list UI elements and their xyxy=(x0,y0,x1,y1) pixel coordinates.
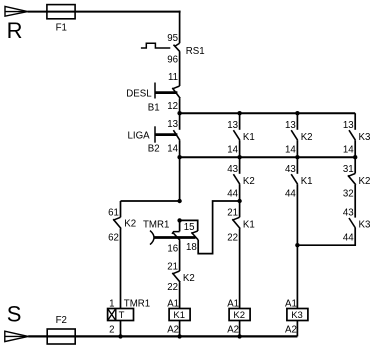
svg-text:TMR1: TMR1 xyxy=(143,220,169,231)
svg-text:16: 16 xyxy=(167,243,178,254)
label T in coil xyxy=(119,310,125,321)
svg-text:18: 18 xyxy=(186,242,197,253)
label LIGA xyxy=(128,131,151,142)
label RS1 xyxy=(186,46,205,57)
pushbutton DESL B1 NC contact 11-12 xyxy=(155,83,180,99)
label 21 (col1) xyxy=(167,262,178,273)
svg-text:K3: K3 xyxy=(291,310,303,321)
label TMR1 (coil) xyxy=(124,298,150,309)
svg-text:A2: A2 xyxy=(167,324,179,335)
svg-text:A1: A1 xyxy=(285,298,297,309)
wire rail1 to col4 xyxy=(354,112,356,114)
labels K2 13-14 xyxy=(285,120,313,156)
rail node wire (row 2) xyxy=(180,156,356,158)
label K3 in coil xyxy=(291,310,303,321)
svg-text:11: 11 xyxy=(168,72,178,83)
power feed arrow R xyxy=(5,6,28,16)
svg-text:LIGA: LIGA xyxy=(128,131,151,142)
svg-text:1: 1 xyxy=(109,298,114,309)
svg-text:32: 32 xyxy=(343,189,354,200)
labels K1 13-14 xyxy=(227,120,255,156)
svg-text:K2: K2 xyxy=(233,310,245,321)
wire rail2 to branch node xyxy=(179,157,181,201)
label DESL xyxy=(126,89,152,100)
svg-text:44: 44 xyxy=(285,189,296,200)
svg-text:13: 13 xyxy=(285,120,296,131)
svg-text:31: 31 xyxy=(343,164,354,175)
svg-text:13: 13 xyxy=(227,120,238,131)
label 16 xyxy=(167,243,178,254)
svg-text:K3: K3 xyxy=(359,132,371,143)
svg-text:13: 13 xyxy=(343,120,354,131)
svg-text:T: T xyxy=(119,310,125,321)
node col2 seal junction xyxy=(237,199,241,203)
svg-text:F1: F1 xyxy=(56,23,67,34)
pin A2 (K3) xyxy=(285,324,297,335)
svg-text:44: 44 xyxy=(227,189,238,200)
label 95 xyxy=(167,33,178,44)
labels K3 13-14 xyxy=(343,120,371,156)
wire col4 down and to col3 xyxy=(297,228,355,245)
contact K2 31-32 NC xyxy=(348,157,356,201)
svg-text:S: S xyxy=(7,302,22,327)
svg-text:43: 43 xyxy=(227,164,238,175)
svg-text:K2: K2 xyxy=(243,176,255,187)
pushbutton LIGA B2 NO contact 13-14 xyxy=(155,113,180,143)
svg-text:12: 12 xyxy=(167,101,178,112)
node at K1 column rail1 xyxy=(237,111,241,115)
wire RS1 to DESL xyxy=(179,52,181,86)
labels K2 43-44 xyxy=(227,164,255,200)
svg-text:21: 21 xyxy=(227,208,238,219)
svg-text:R: R xyxy=(7,18,23,43)
label B2 xyxy=(148,143,160,154)
svg-text:RS1: RS1 xyxy=(186,46,205,57)
pin A2 (K1) xyxy=(167,324,179,335)
label K2 (61-62) xyxy=(124,219,136,230)
timer contact TMR1 15-16 blade xyxy=(172,220,180,240)
label F2 xyxy=(56,315,67,326)
fuse F2 xyxy=(47,329,75,344)
pin 2 xyxy=(109,324,114,335)
timer actuator and delay symbol xyxy=(150,231,196,245)
wire R rail xyxy=(28,11,181,13)
svg-text:K2: K2 xyxy=(124,219,136,230)
svg-text:96: 96 xyxy=(167,54,178,65)
node rail2 col2 xyxy=(237,155,241,159)
svg-text:2: 2 xyxy=(109,324,114,335)
contact K3 43-44 NO xyxy=(349,201,355,228)
contact K2 43-44 NO xyxy=(233,157,239,201)
label 62 xyxy=(108,232,119,243)
node at DESL-LIGA junction xyxy=(177,111,181,115)
svg-text:B2: B2 xyxy=(148,143,160,154)
contact K1 21-22 NC xyxy=(232,201,240,309)
svg-text:14: 14 xyxy=(227,145,238,156)
svg-text:43: 43 xyxy=(343,208,354,219)
wire down from R rail xyxy=(179,11,181,44)
node K2 on bus xyxy=(237,334,241,338)
wire col3 to K3 coil xyxy=(296,245,298,308)
node at K2 column rail1 xyxy=(295,111,299,115)
svg-text:K2: K2 xyxy=(301,132,313,143)
svg-text:95: 95 xyxy=(167,33,178,44)
overload relay contact RS1 95-96 xyxy=(141,43,180,52)
wire branch to K2 61 column xyxy=(121,200,180,202)
svg-text:B1: B1 xyxy=(148,102,160,113)
label K2 (21-22) xyxy=(183,273,195,284)
pin A1 (K2) xyxy=(227,298,239,309)
svg-text:22: 22 xyxy=(227,232,238,243)
svg-text:K2: K2 xyxy=(359,176,371,187)
timer contact TMR1 15-18 blade xyxy=(191,231,198,240)
svg-text:A2: A2 xyxy=(227,324,239,335)
pin A1 (K3) xyxy=(285,298,297,309)
svg-text:K3: K3 xyxy=(359,220,371,231)
labels K2 31-32 xyxy=(343,164,371,200)
node K1 on bus xyxy=(177,334,181,338)
labels K1 43-44 xyxy=(285,164,313,200)
node rail2 col3 xyxy=(295,155,299,159)
svg-text:K1: K1 xyxy=(301,176,313,187)
wire pin 18 to K1 column xyxy=(198,201,239,254)
label 61 xyxy=(108,208,119,219)
node TMR1 on bus xyxy=(118,334,122,338)
svg-text:15: 15 xyxy=(184,222,195,233)
label 15 xyxy=(184,222,195,233)
svg-text:A1: A1 xyxy=(167,298,179,309)
label 96 xyxy=(167,54,178,65)
wire to K1 coil xyxy=(179,282,181,308)
svg-text:14: 14 xyxy=(343,145,354,156)
wire TMR1-16 down xyxy=(179,240,181,271)
node rail2 col4 xyxy=(353,155,357,159)
label R xyxy=(7,18,23,43)
svg-text:22: 22 xyxy=(167,282,178,293)
svg-text:K1: K1 xyxy=(243,220,255,231)
contact K3 13-14 NO xyxy=(349,113,355,157)
label B1 xyxy=(148,102,160,113)
wire K1 coil to bus xyxy=(179,321,181,337)
label K1 in coil xyxy=(173,310,185,321)
contactor coil K2 xyxy=(229,309,250,321)
svg-text:44: 44 xyxy=(343,232,354,243)
contactor coil K3 xyxy=(287,309,308,321)
contactor coil K1 xyxy=(169,309,190,321)
pin A2 (K2) xyxy=(227,324,239,335)
label 18 xyxy=(186,242,197,253)
rail node wire (row 1) xyxy=(180,112,356,114)
svg-text:43: 43 xyxy=(285,164,296,175)
label 13 (LIGA) xyxy=(167,119,178,130)
wire K3 coil to bus xyxy=(296,321,298,337)
svg-text:F2: F2 xyxy=(56,315,67,326)
contact K2 13-14 NO xyxy=(291,113,297,157)
label 11 xyxy=(168,72,178,83)
svg-text:14: 14 xyxy=(167,143,178,154)
svg-text:14: 14 xyxy=(285,145,296,156)
contact K2 21-22 NC (col1) xyxy=(172,271,180,282)
svg-text:A2: A2 xyxy=(285,324,297,335)
label S xyxy=(7,302,22,327)
wire K2 coil to bus xyxy=(239,321,241,337)
node rail2 col1 xyxy=(177,155,181,159)
contact K1 43-44 NO xyxy=(291,157,297,245)
contact K1 13-14 NO xyxy=(233,113,239,157)
fuse F1 xyxy=(47,5,75,19)
node col3-col4 join xyxy=(295,243,299,247)
wire DESL to rail1 xyxy=(179,98,181,113)
label F1 xyxy=(56,23,67,34)
pin A1 (K1) xyxy=(167,298,179,309)
label K2 in coil xyxy=(233,310,245,321)
label 22 (col1) xyxy=(167,282,178,293)
labels K1 21-22 xyxy=(227,208,255,244)
svg-text:21: 21 xyxy=(167,262,178,273)
node branch to timer circuit xyxy=(177,199,181,203)
svg-text:TMR1: TMR1 xyxy=(124,298,150,309)
wire to TMR1 pin 15 xyxy=(180,220,198,231)
svg-text:K1: K1 xyxy=(173,310,185,321)
svg-text:62: 62 xyxy=(108,232,119,243)
wire 62 to TMR1 coil xyxy=(120,229,122,309)
wire TMR1 coil to bus xyxy=(120,321,122,337)
wire LIGA to rail2 xyxy=(179,140,181,157)
svg-text:K2: K2 xyxy=(183,273,195,284)
timer coil TMR1 xyxy=(108,309,134,321)
svg-text:DESL: DESL xyxy=(126,89,152,100)
svg-text:13: 13 xyxy=(167,119,178,130)
bus wire S rail xyxy=(28,335,297,337)
power feed arrow S xyxy=(5,331,28,341)
label 14 (LIGA) xyxy=(167,143,178,154)
label 12 xyxy=(167,101,178,112)
pin 1 xyxy=(109,298,114,309)
contact K2 61-62 NC xyxy=(113,201,121,229)
labels K3 43-44 xyxy=(343,208,371,244)
svg-text:K1: K1 xyxy=(243,132,255,143)
svg-text:61: 61 xyxy=(108,208,119,219)
label TMR1 (contact) xyxy=(143,220,169,231)
node TMR1 contact common xyxy=(177,218,181,222)
svg-text:A1: A1 xyxy=(227,298,239,309)
